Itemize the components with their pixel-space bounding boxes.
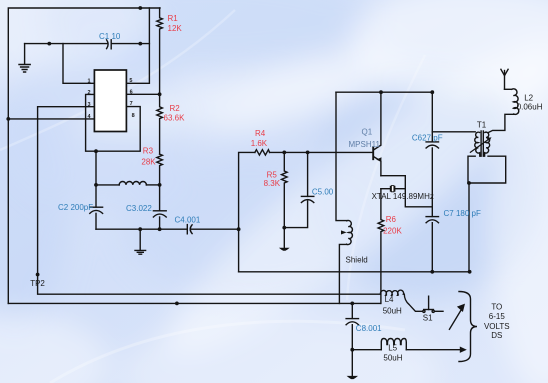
wire R5-C5 bottom link [284, 201, 307, 228]
junction pin2 loop node [94, 149, 98, 153]
svg-text:6: 6 [130, 90, 133, 96]
T1 arrow [486, 137, 491, 141]
svg-text:R3: R3 [143, 147, 154, 156]
transformer T1 [475, 132, 480, 156]
svg-text:TP2: TP2 [30, 279, 45, 288]
Q1 emitter arrowhead [376, 157, 381, 162]
svg-text:220K: 220K [383, 227, 402, 236]
svg-text:3: 3 [88, 102, 91, 108]
svg-text:VOLTS: VOLTS [484, 322, 510, 331]
junction C8 L5 node [350, 348, 354, 352]
wire top rail [8, 8, 160, 303]
chassis under R5 [279, 248, 290, 251]
junction R3 L1 node [158, 183, 162, 187]
ground mid bars [135, 250, 146, 254]
svg-text:R6: R6 [386, 215, 397, 224]
arrowhead diagonal [457, 304, 465, 312]
T1 arrow line [470, 139, 489, 153]
switch S1 [423, 310, 425, 312]
svg-text:5: 5 [129, 78, 132, 84]
wire T1 secondary to L2 [488, 114, 514, 132]
capacitor C8 column [351, 303, 353, 318]
svg-text:L2: L2 [524, 94, 533, 103]
capacitor C3 [153, 210, 166, 212]
brace [459, 292, 477, 362]
svg-text:DS: DS [491, 331, 502, 340]
resistor R6 [378, 189, 384, 304]
junction R5 C5 bottom node [282, 226, 286, 230]
arrowhead L5 line [460, 347, 467, 353]
IC pin numbers [88, 78, 135, 120]
svg-text:C8.001: C8.001 [356, 324, 382, 333]
svg-text:Shield: Shield [346, 256, 368, 265]
wire emitter jog [381, 176, 432, 207]
chassis under C8 [347, 376, 358, 379]
svg-text:8.3K: 8.3K [264, 179, 281, 188]
junction T1 box corner node [467, 181, 471, 185]
junction T1 shield rail node [468, 270, 472, 274]
resistor R5 [281, 152, 287, 227]
IC U1 body [94, 70, 126, 132]
inductor L1 [96, 184, 119, 186]
svg-text:XTAL 149.89MHz: XTAL 149.89MHz [372, 192, 434, 201]
junction C6 top rail node [430, 90, 434, 94]
svg-text:6-15: 6-15 [489, 312, 506, 321]
svg-text:1.6K: 1.6K [251, 139, 268, 148]
shield coil [347, 220, 353, 244]
junction C2 L1 node [94, 183, 98, 187]
capacitor C7 [426, 216, 438, 218]
svg-text:C4.001: C4.001 [175, 216, 201, 225]
svg-text:50uH: 50uH [383, 353, 402, 362]
junction bottom rail node [175, 302, 179, 306]
wire R4 section left rail [239, 152, 255, 271]
shield top rail [336, 91, 432, 93]
svg-text:8: 8 [132, 113, 135, 119]
junction ground C4 row node [138, 227, 142, 231]
resistor R2 [157, 94, 163, 154]
svg-text:7: 7 [130, 101, 133, 107]
wire L4 to S1 [404, 294, 422, 311]
svg-text:L4: L4 [385, 295, 394, 304]
arrow diagonal [449, 309, 461, 329]
svg-text:63.6K: 63.6K [164, 114, 186, 123]
junction pin6 R2 node [158, 92, 162, 96]
inductor L5 [352, 349, 381, 351]
svg-text:1: 1 [88, 79, 91, 85]
svg-text:C3.022: C3.022 [126, 204, 152, 213]
wire pin4 [8, 118, 94, 120]
svg-text:R5: R5 [267, 170, 278, 179]
capacitor C1 [107, 40, 109, 49]
ground mid stub [139, 229, 141, 250]
capacitor C6 column [431, 92, 433, 142]
shield left column [336, 92, 347, 220]
svg-text:C627 pF: C627 pF [412, 133, 443, 142]
wire pin2 loop [86, 94, 141, 151]
antenna [505, 88, 512, 90]
ground stub top-left [24, 44, 26, 64]
wire C4 row [96, 228, 187, 230]
T1 shield box [468, 156, 506, 183]
svg-text:R2: R2 [170, 104, 181, 113]
resistor R4 [255, 150, 270, 155]
junction C8 bottom rail node [350, 302, 354, 306]
capacitor C5 [301, 195, 313, 197]
inductor L2 [512, 89, 519, 115]
wire pin5 column [126, 8, 149, 83]
junction C1 row left node [47, 42, 51, 46]
wire pin3 / TP2 line [38, 107, 381, 295]
svg-text:T1: T1 [477, 121, 487, 130]
wire pin1 [63, 44, 94, 84]
wire T1 box drop [468, 183, 470, 272]
wire C3 column [159, 185, 161, 211]
wire C1 row [25, 43, 108, 45]
junction top rail node [138, 6, 142, 10]
wire R5 chassis stem [283, 228, 285, 248]
svg-text:Q1: Q1 [362, 127, 373, 136]
capacitor C4 [186, 225, 188, 234]
svg-text:C7 180 pF: C7 180 pF [444, 209, 481, 218]
arrowheads and filled marks [279, 137, 492, 379]
junction C5 base line node [306, 151, 310, 155]
svg-text:0.06uH: 0.06uH [517, 103, 543, 112]
junction pin4 left rail node [6, 117, 10, 121]
junction C1 row right node [138, 42, 142, 46]
wire bottom rail [8, 302, 380, 304]
ground top-left bars [19, 65, 30, 73]
svg-text:C1 10: C1 10 [99, 32, 121, 41]
svg-text:L5: L5 [388, 344, 397, 353]
svg-text:28K: 28K [141, 158, 156, 167]
junction C4 left rail node [237, 227, 241, 231]
junction C7 shield rail node [430, 270, 434, 274]
svg-text:MPSH11: MPSH11 [349, 140, 381, 149]
wire T1 top lead [432, 131, 475, 133]
shield coil triangle [341, 230, 347, 234]
inductor L4 [380, 290, 404, 295]
svg-text:TO: TO [491, 302, 502, 311]
resistor R3 [157, 154, 163, 185]
wire C2 column [95, 151, 97, 207]
junction C3 C4 row node [158, 227, 162, 231]
svg-text:R4: R4 [255, 129, 266, 138]
junction Q1 collector rail node [379, 90, 383, 94]
svg-text:50uH: 50uH [383, 307, 402, 316]
svg-text:C2 200pF: C2 200pF [58, 203, 93, 212]
junction R5 base line node [282, 151, 286, 155]
svg-text:2: 2 [88, 90, 91, 96]
svg-text:R1: R1 [168, 14, 179, 23]
wire pin6 [126, 93, 159, 95]
svg-text:C5.00: C5.00 [312, 188, 334, 197]
resistor R1 [157, 8, 163, 94]
svg-text:12K: 12K [168, 24, 183, 33]
node TP2 [36, 273, 40, 277]
crystal XTAL [381, 188, 390, 190]
transistor Q1 [372, 147, 374, 159]
shield bottom rail [239, 271, 470, 273]
svg-text:S1: S1 [423, 313, 433, 322]
capacitor C2 [90, 206, 103, 208]
